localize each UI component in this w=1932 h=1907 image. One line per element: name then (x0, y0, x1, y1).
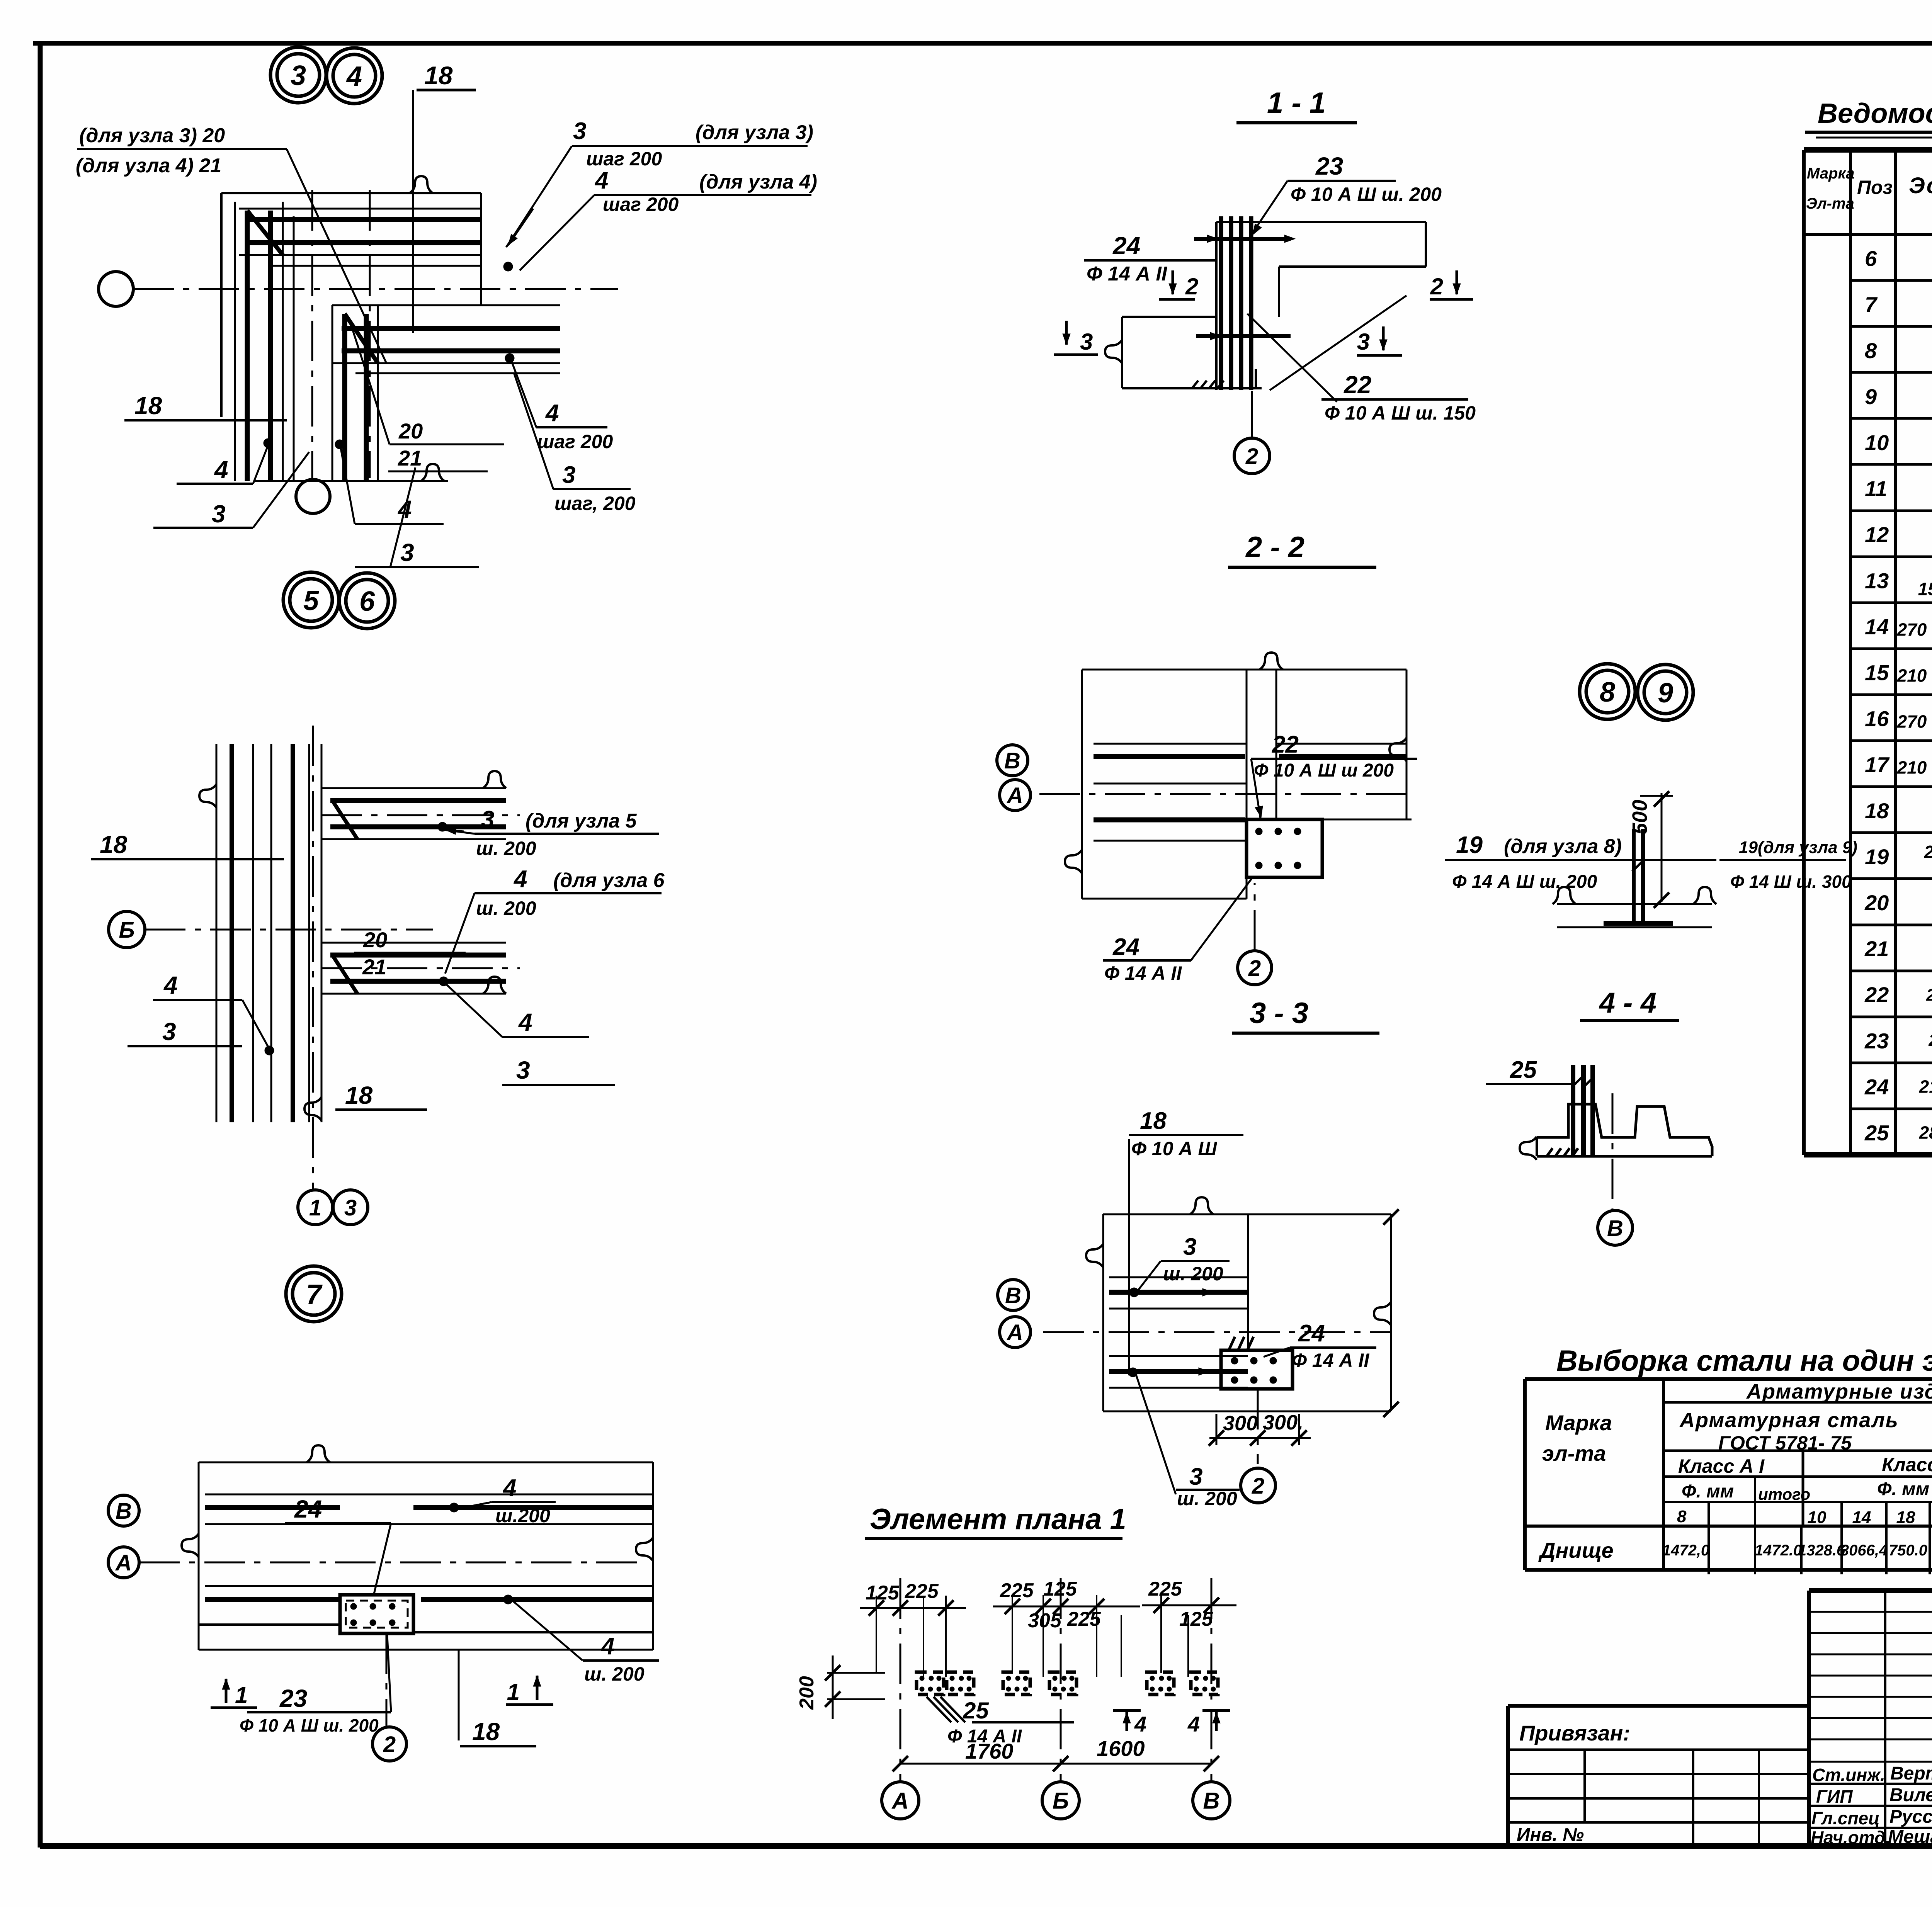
svg-text:Марка: Марка (1807, 165, 1855, 182)
svg-text:Ведомость стержней на один: Ведомость стержней на один элемент (1818, 98, 1932, 129)
svg-text:18: 18 (134, 392, 162, 420)
svg-text:125: 125 (1043, 1578, 1077, 1600)
svg-text:17: 17 (1865, 753, 1890, 777)
svg-text:3: 3 (162, 1018, 176, 1045)
svg-text:18: 18 (1140, 1108, 1167, 1134)
svg-text:Ф. мм: Ф. мм (1682, 1481, 1734, 1502)
svg-text:(для узла 5: (для узла 5 (526, 810, 637, 832)
svg-text:ш. 200: ш. 200 (476, 838, 536, 859)
svg-text:2: 2 (1430, 274, 1443, 299)
svg-text:305: 305 (1028, 1610, 1062, 1632)
svg-text:ш. 200: ш. 200 (584, 1663, 645, 1685)
svg-text:8: 8 (1677, 1507, 1687, 1526)
svg-text:эл-та: эл-та (1542, 1441, 1606, 1465)
svg-text:1472,0: 1472,0 (1662, 1542, 1709, 1559)
svg-text:Инв. №: Инв. № (1517, 1825, 1584, 1845)
svg-text:А: А (1006, 1320, 1023, 1345)
svg-text:Ф 10 А Ш ш. 200: Ф 10 А Ш ш. 200 (240, 1715, 379, 1735)
svg-text:4: 4 (346, 61, 362, 92)
svg-text:ш.200: ш.200 (495, 1505, 550, 1526)
svg-text:шаг 200: шаг 200 (537, 431, 613, 452)
svg-text:4: 4 (1134, 1712, 1146, 1736)
svg-text:24: 24 (1864, 1074, 1889, 1099)
svg-text:25: 25 (1864, 1120, 1889, 1145)
svg-text:Б: Б (119, 918, 134, 943)
svg-text:22: 22 (1864, 982, 1889, 1007)
svg-text:18: 18 (472, 1718, 500, 1746)
svg-text:2: 2 (1252, 1474, 1264, 1499)
svg-text:Ф 14 А II: Ф 14 А II (1087, 263, 1168, 285)
svg-text:21: 21 (1864, 937, 1889, 961)
svg-text:18: 18 (1865, 799, 1889, 823)
svg-text:21: 21 (362, 955, 386, 979)
svg-text:11: 11 (1865, 476, 1887, 501)
svg-text:4 - 4: 4 - 4 (1599, 987, 1656, 1019)
svg-text:Б: Б (1053, 1788, 1069, 1814)
svg-text:Элемент плана 1: Элемент плана 1 (870, 1503, 1126, 1536)
svg-text:Вилейкина: Вилейкина (1889, 1785, 1932, 1805)
svg-text:18: 18 (1896, 1508, 1915, 1527)
svg-text:225: 225 (1000, 1579, 1034, 1602)
svg-text:ш. 200: ш. 200 (1163, 1263, 1223, 1285)
svg-text:Днище: Днище (1538, 1538, 1614, 1562)
svg-text:280: 280 (1924, 842, 1932, 862)
svg-text:(для узла 3): (для узла 3) (696, 121, 813, 144)
svg-text:210: 210 (1897, 665, 1927, 685)
svg-text:19: 19 (1456, 832, 1483, 858)
svg-text:23: 23 (1315, 152, 1343, 180)
svg-text:3: 3 (344, 1195, 357, 1220)
svg-text:Ф 14 А II: Ф 14 А II (1292, 1350, 1369, 1371)
svg-text:23: 23 (1864, 1028, 1889, 1053)
svg-text:20: 20 (1864, 891, 1889, 915)
svg-text:(для узла 4): (для узла 4) (699, 171, 817, 193)
svg-text:4: 4 (600, 1633, 614, 1660)
svg-text:3: 3 (291, 60, 306, 91)
svg-text:1600: 1600 (1097, 1736, 1145, 1761)
svg-text:(для узла 3) 20: (для узла 3) 20 (79, 124, 225, 147)
svg-text:20: 20 (398, 419, 423, 443)
svg-text:1328.6: 1328.6 (1798, 1542, 1845, 1559)
svg-text:290: 290 (1926, 986, 1932, 1004)
svg-text:12: 12 (1865, 522, 1889, 547)
svg-text:270: 270 (1897, 712, 1927, 732)
svg-text:15: 15 (1865, 660, 1889, 685)
svg-text:14: 14 (1865, 614, 1889, 639)
svg-text:750.0: 750.0 (1889, 1542, 1927, 1559)
svg-text:18: 18 (424, 61, 453, 90)
svg-text:24: 24 (1112, 232, 1140, 260)
svg-text:3: 3 (400, 539, 414, 566)
svg-text:1: 1 (235, 1682, 248, 1708)
svg-text:4: 4 (545, 400, 559, 427)
svg-text:25: 25 (1510, 1057, 1537, 1083)
svg-text:Эл-та: Эл-та (1806, 195, 1854, 212)
svg-text:1: 1 (309, 1195, 321, 1220)
svg-text:4: 4 (163, 971, 178, 999)
svg-text:24: 24 (294, 1495, 322, 1523)
svg-text:Ф 10 А Ш ш. 150: Ф 10 А Ш ш. 150 (1325, 402, 1476, 424)
svg-text:8: 8 (1865, 338, 1877, 363)
svg-text:шаг 200: шаг 200 (603, 194, 679, 215)
svg-text:Ф. мм: Ф. мм (1877, 1479, 1929, 1499)
svg-text:125: 125 (1179, 1608, 1213, 1630)
svg-text:270: 270 (1897, 619, 1927, 639)
svg-text:ГОСТ 5781- 75: ГОСТ 5781- 75 (1718, 1432, 1852, 1454)
svg-text:19: 19 (1865, 845, 1889, 869)
svg-text:Вертепо: Вертепо (1890, 1763, 1932, 1784)
svg-text:ш. 200: ш. 200 (1177, 1488, 1237, 1509)
svg-text:10: 10 (1808, 1508, 1827, 1527)
svg-text:7: 7 (306, 1279, 323, 1310)
svg-text:9: 9 (1658, 678, 1673, 709)
svg-text:4: 4 (214, 456, 228, 484)
svg-text:290: 290 (1928, 1031, 1932, 1050)
svg-text:21: 21 (398, 446, 422, 470)
svg-text:3: 3 (1189, 1463, 1202, 1490)
svg-text:6: 6 (1865, 246, 1877, 271)
svg-text:Арматурная сталь: Арматурная сталь (1679, 1409, 1899, 1432)
svg-text:1: 1 (507, 1679, 520, 1705)
svg-text:Привязан:: Привязан: (1519, 1721, 1630, 1745)
svg-text:210: 210 (1897, 758, 1927, 778)
svg-text:Ф 14 А Ш ш. 200: Ф 14 А Ш ш. 200 (1452, 872, 1597, 892)
svg-text:13: 13 (1865, 568, 1889, 593)
svg-text:2: 2 (1185, 274, 1198, 299)
svg-text:2: 2 (1245, 444, 1258, 469)
svg-text:2: 2 (383, 1732, 396, 1757)
svg-text:3: 3 (481, 806, 494, 833)
svg-text:Арматурные изделия: Арматурные изделия (1746, 1380, 1932, 1403)
svg-text:1 - 1: 1 - 1 (1267, 87, 1326, 119)
svg-text:9: 9 (1865, 384, 1877, 409)
svg-text:3: 3 (212, 500, 226, 528)
svg-text:280: 280 (1919, 1122, 1932, 1142)
svg-text:Марка: Марка (1545, 1411, 1612, 1435)
svg-text:3: 3 (1357, 329, 1370, 355)
svg-text:22: 22 (1272, 731, 1299, 758)
svg-text:Ф 10 А Ш ш 200: Ф 10 А Ш ш 200 (1254, 760, 1394, 781)
svg-text:шаг, 200: шаг, 200 (554, 493, 636, 514)
svg-text:18: 18 (100, 831, 128, 858)
svg-text:В: В (1607, 1216, 1623, 1241)
svg-text:Выборка стали на один эл: Выборка стали на один элемент, кг (1556, 1344, 1932, 1377)
svg-text:24: 24 (1112, 934, 1139, 960)
svg-text:16: 16 (1865, 707, 1889, 731)
svg-text:3 - 3: 3 - 3 (1250, 997, 1308, 1030)
svg-text:20: 20 (363, 928, 387, 952)
svg-text:14: 14 (1852, 1508, 1871, 1527)
svg-text:Мешалкин: Мешалкин (1888, 1827, 1932, 1847)
svg-text:4: 4 (513, 866, 527, 892)
svg-text:5: 5 (303, 585, 319, 616)
svg-text:10: 10 (1865, 430, 1889, 455)
svg-text:(для узла 8): (для узла 8) (1504, 835, 1622, 858)
svg-text:А: А (1006, 783, 1023, 808)
svg-text:ГИП: ГИП (1816, 1786, 1853, 1807)
svg-text:24: 24 (1298, 1320, 1325, 1347)
svg-text:8: 8 (1600, 677, 1615, 708)
svg-text:300.: 300. (1263, 1411, 1303, 1434)
svg-text:шаг 200: шаг 200 (586, 148, 662, 170)
svg-text:В: В (1004, 748, 1020, 773)
svg-text:(для узла 6: (для узла 6 (553, 869, 665, 892)
svg-text:В: В (116, 1499, 132, 1524)
svg-text:22: 22 (1344, 371, 1371, 399)
svg-text:Гл.спец: Гл.спец (1811, 1808, 1880, 1828)
svg-text:3: 3 (1183, 1234, 1196, 1260)
svg-text:18: 18 (345, 1081, 373, 1109)
svg-text:Класс А II: Класс А II (1882, 1454, 1932, 1475)
svg-text:4: 4 (594, 167, 608, 194)
svg-text:19(для узла 9): 19(для узла 9) (1739, 838, 1857, 857)
svg-text:4: 4 (518, 1008, 532, 1036)
svg-text:В: В (1005, 1283, 1021, 1308)
svg-text:(для узла 4) 21: (для узла 4) 21 (76, 155, 221, 177)
svg-text:2: 2 (1248, 956, 1261, 981)
svg-text:В: В (1203, 1788, 1219, 1814)
svg-text:ш. 200: ш. 200 (476, 897, 536, 919)
svg-text:23: 23 (279, 1684, 307, 1712)
svg-text:200: 200 (796, 1676, 818, 1710)
svg-text:3: 3 (516, 1056, 530, 1084)
svg-text:4: 4 (502, 1475, 516, 1501)
svg-text:3066,4: 3066,4 (1840, 1542, 1888, 1559)
svg-text:Нач.отд.: Нач.отд. (1811, 1827, 1890, 1848)
svg-text:Поз: Поз (1857, 177, 1893, 198)
svg-text:300: 300 (1223, 1412, 1258, 1435)
svg-text:1472.0: 1472.0 (1755, 1542, 1802, 1559)
svg-text:Ф 10 А Ш: Ф 10 А Ш (1131, 1138, 1217, 1159)
svg-text:А: А (115, 1550, 132, 1576)
svg-text:Ф 14 А II: Ф 14 А II (947, 1726, 1022, 1747)
svg-text:210: 210 (1919, 1076, 1932, 1096)
svg-text:6: 6 (359, 586, 375, 617)
svg-text:150: 150 (1918, 579, 1932, 599)
svg-text:3: 3 (562, 462, 575, 488)
svg-text:Руссин: Руссин (1889, 1807, 1932, 1827)
svg-text:Ф 14 А II: Ф 14 А II (1104, 962, 1182, 984)
svg-text:2 - 2: 2 - 2 (1245, 531, 1304, 564)
svg-text:3: 3 (573, 118, 586, 144)
svg-text:Класс А I: Класс А I (1678, 1455, 1765, 1477)
svg-text:25: 25 (963, 1698, 989, 1723)
svg-text:7: 7 (1865, 292, 1878, 317)
svg-text:Ф 14 Ш ш. 300: Ф 14 Ш ш. 300 (1730, 872, 1852, 892)
svg-text:Ст.инж.: Ст.инж. (1812, 1765, 1885, 1785)
svg-text:4: 4 (1187, 1712, 1200, 1736)
svg-text:Эскиз или сечение: Эскиз или сечение (1909, 173, 1932, 198)
svg-text:итого: итого (1758, 1485, 1810, 1503)
svg-text:225: 225 (1148, 1578, 1182, 1600)
svg-text:225: 225 (905, 1580, 939, 1603)
svg-text:Ф 10 А Ш ш. 200: Ф 10 А Ш ш. 200 (1291, 184, 1442, 205)
svg-text:3: 3 (1080, 329, 1093, 355)
svg-text:А: А (891, 1788, 908, 1814)
